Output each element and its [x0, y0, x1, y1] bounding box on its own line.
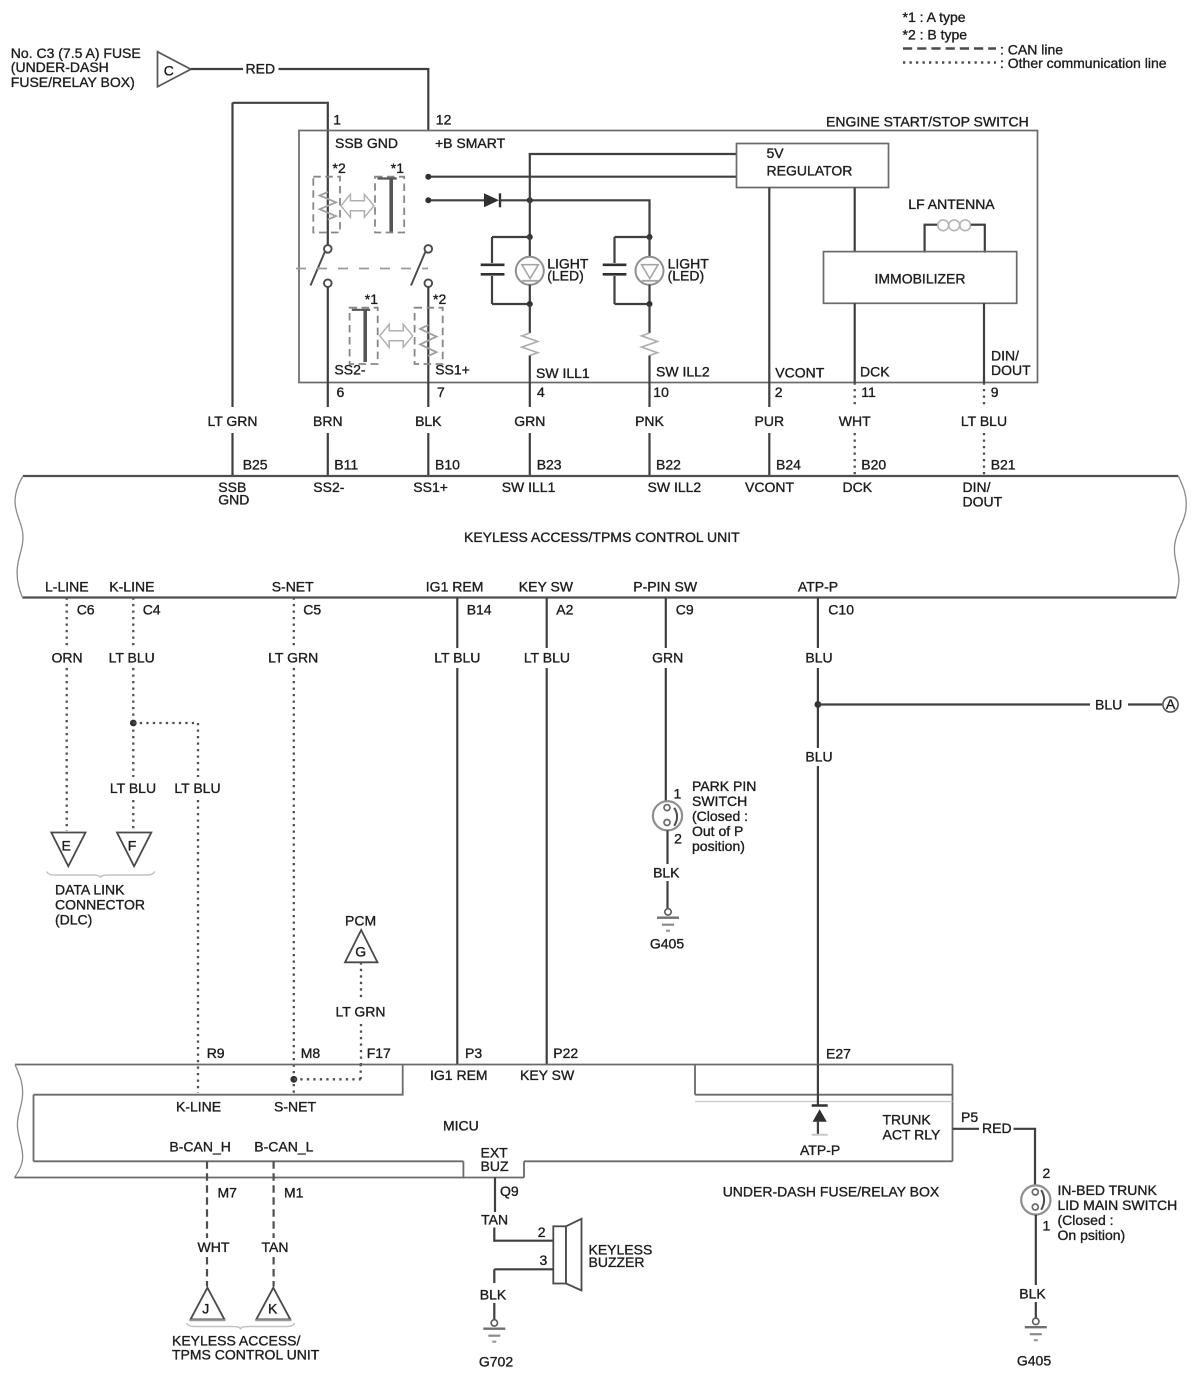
svg-text:7: 7: [437, 384, 445, 400]
wire B-CAN_H dashed to J: [206, 1161, 208, 1286]
svg-text:S-NET: S-NET: [272, 578, 314, 594]
wire K-LINE dotted to DLC F: [132, 598, 134, 832]
svg-text:M1: M1: [284, 1184, 304, 1200]
wire L-LINE dotted to DLC E: [66, 598, 68, 832]
svg-text:E: E: [62, 838, 71, 854]
svg-text:ATP-P: ATP-P: [798, 578, 838, 594]
svg-text:*2 : B type: *2 : B type: [903, 27, 968, 43]
net EXT BUZ label: [481, 1145, 509, 1175]
svg-text:LID MAIN SWITCH: LID MAIN SWITCH: [1058, 1197, 1178, 1213]
wire DCK to connector B20: [854, 383, 856, 477]
connector C triangle: [158, 52, 191, 87]
legend CAN line sample: [903, 47, 996, 50]
svg-text:LT BLU: LT BLU: [110, 780, 156, 796]
wire ATP-P from C10: [817, 598, 819, 1066]
svg-text:BUZZER: BUZZER: [589, 1254, 645, 1270]
svg-text:SW ILL2: SW ILL2: [656, 364, 710, 380]
svg-text:L-LINE: L-LINE: [45, 578, 89, 594]
svg-text:(LED): (LED): [668, 267, 705, 283]
svg-text:3: 3: [540, 1252, 548, 1268]
wire LED1 feed down: [529, 200, 531, 237]
svg-text:C5: C5: [303, 601, 321, 617]
net SSB GND label: [218, 479, 249, 507]
svg-text:B-CAN_H: B-CAN_H: [169, 1138, 230, 1154]
wire SS2- to connector B11: [327, 383, 329, 477]
svg-text:Out of P: Out of P: [692, 823, 743, 839]
svg-text:GND: GND: [218, 492, 249, 508]
svg-text:IG1 REM: IG1 REM: [426, 578, 484, 594]
svg-text:Q9: Q9: [500, 1183, 519, 1199]
svg-text:VCONT: VCONT: [745, 479, 794, 495]
svg-text:TPMS CONTROL UNIT: TPMS CONTROL UNIT: [172, 1346, 320, 1362]
svg-text:10: 10: [653, 384, 669, 400]
svg-text:MICU: MICU: [443, 1117, 479, 1133]
svg-text:LT GRN: LT GRN: [268, 649, 318, 665]
wire DIN/DOUT immobilizer to pin 9: [983, 303, 985, 382]
switch SS1 blade: [411, 251, 426, 286]
diode trunk act rly (ATP-P): [812, 1106, 828, 1135]
svg-text:PNK: PNK: [635, 413, 664, 429]
svg-text:On psition): On psition): [1058, 1227, 1126, 1243]
connector G triangle (PCM): [345, 930, 378, 962]
5V regulator box: [737, 144, 889, 188]
wire SSB GND pin 1 up-left to B25: [233, 102, 328, 407]
wire B-CAN_L dashed to K: [273, 1161, 275, 1286]
svg-text:B21: B21: [991, 456, 1016, 472]
svg-text:RED: RED: [982, 1120, 1012, 1136]
wire BLU to connector A: [818, 703, 1162, 705]
svg-text:G702: G702: [479, 1353, 513, 1369]
engine start/stop switch box: [299, 131, 1038, 383]
svg-text:BLK: BLK: [1019, 1285, 1046, 1301]
svg-text:KEY SW: KEY SW: [520, 1067, 575, 1083]
svg-text:2: 2: [674, 830, 682, 846]
svg-text:LT GRN: LT GRN: [335, 1003, 385, 1019]
svg-text:SW ILL1: SW ILL1: [502, 479, 556, 495]
svg-text:SS1+: SS1+: [413, 479, 448, 495]
svg-text:SW ILL2: SW ILL2: [648, 479, 702, 495]
E27 connector strip: [695, 1065, 953, 1102]
capacitor C-LED2: [603, 237, 651, 304]
svg-text:LT BLU: LT BLU: [434, 649, 480, 665]
svg-text:(Closed :: (Closed :: [1058, 1212, 1114, 1228]
immobilizer box: [824, 252, 1017, 304]
wire +B SMART drop to pin 12: [427, 69, 429, 131]
wire P5 RED to in-bed trunk switch: [953, 1129, 1037, 1186]
svg-text:M8: M8: [301, 1045, 321, 1061]
net DIN/DOUT label: [963, 479, 1003, 510]
svg-text:SS1+: SS1+: [435, 362, 470, 378]
svg-text:2: 2: [775, 384, 783, 400]
node LED1 top: [527, 234, 533, 240]
wire EXT BUZ Q9 to buzzer: [494, 1178, 554, 1242]
pin numbers under engine box: [337, 384, 999, 400]
wire +B SMART to 5V regulator: [428, 176, 736, 178]
DLC brace: [47, 872, 155, 879]
svg-text:A2: A2: [556, 601, 573, 617]
svg-text:LT BLU: LT BLU: [109, 649, 155, 665]
legend other communication line sample: [903, 61, 996, 64]
svg-text:VCONT: VCONT: [775, 365, 824, 381]
svg-text:SSB GND: SSB GND: [335, 135, 398, 151]
connector J triangle: [190, 1288, 226, 1321]
wire S-NET junction dotted to F17: [294, 1065, 361, 1080]
node LED1 feed: [527, 197, 533, 203]
wire DIN/DOUT to connector B21: [983, 383, 985, 477]
switch SS2 blade: [311, 251, 326, 286]
svg-text:C6: C6: [77, 601, 95, 617]
svg-text:A: A: [1166, 696, 1176, 712]
svg-text:B20: B20: [861, 456, 886, 472]
contact A-type *1 (lower, dashed box): [350, 308, 378, 364]
svg-text:K: K: [268, 1301, 278, 1317]
capacitor C-LED1: [481, 237, 531, 304]
svg-text:F: F: [128, 838, 137, 854]
ground G405 (trunk switch): [1025, 1318, 1047, 1340]
svg-text:BRN: BRN: [313, 413, 343, 429]
svg-text:B14: B14: [467, 601, 492, 617]
node K-LINE branch: [130, 720, 137, 727]
switch linkage dashed: [296, 268, 428, 270]
svg-text:4: 4: [537, 384, 545, 400]
wire KEY SW to P22: [546, 598, 548, 1065]
svg-text:C10: C10: [828, 601, 854, 617]
svg-text:SS2-: SS2-: [334, 362, 365, 378]
svg-text:GRN: GRN: [652, 649, 683, 665]
svg-text:B25: B25: [243, 456, 268, 472]
wire SS1+ down to pin 7: [427, 287, 429, 383]
resistor B-type *2 (lower, dashed box): [415, 308, 443, 364]
svg-text:BLK: BLK: [480, 1286, 507, 1302]
LIGHT (LED) 1 label: [547, 256, 589, 284]
MICU box: [34, 1065, 525, 1178]
svg-text:TAN: TAN: [262, 1239, 289, 1255]
svg-text:(LED): (LED): [547, 267, 584, 283]
svg-text:SW ILL1: SW ILL1: [536, 365, 590, 381]
svg-text:PARK PIN: PARK PIN: [692, 778, 756, 794]
connector E triangle (DLC): [51, 833, 85, 867]
svg-text:UNDER-DASH FUSE/RELAY BOX: UNDER-DASH FUSE/RELAY BOX: [723, 1183, 940, 1199]
park pin switch label: [692, 778, 756, 854]
wire S-NET dotted to M8: [293, 598, 295, 1094]
svg-text:G405: G405: [1017, 1352, 1051, 1368]
node +B SMART / 5V reg: [425, 174, 431, 180]
svg-text:P5: P5: [961, 1109, 978, 1125]
svg-text:KEY SW: KEY SW: [519, 578, 574, 594]
wire diode to LED branches: [500, 200, 651, 237]
svg-text:C9: C9: [676, 601, 694, 617]
DLC label: [55, 881, 145, 927]
svg-text:SWITCH: SWITCH: [692, 793, 747, 809]
svg-text:*1: *1: [391, 160, 404, 176]
wire DCK regulator to immobilizer: [854, 188, 856, 252]
svg-text:ENGINE START/STOP SWITCH: ENGINE START/STOP SWITCH: [826, 114, 1029, 130]
net TRUNK ACT RLY label: [883, 1111, 941, 1142]
svg-text:LT BLU: LT BLU: [961, 413, 1007, 429]
svg-text:P-PIN SW: P-PIN SW: [633, 578, 698, 594]
svg-text:K-LINE: K-LINE: [109, 578, 154, 594]
svg-text:LT GRN: LT GRN: [207, 413, 257, 429]
5V regulator label: [767, 145, 853, 179]
svg-text:G405: G405: [650, 935, 684, 951]
wire VCONT from regulator: [768, 188, 770, 383]
svg-text:ATP-P: ATP-P: [800, 1142, 840, 1158]
svg-text:LF ANTENNA: LF ANTENNA: [908, 196, 995, 212]
svg-text:P3: P3: [465, 1045, 482, 1061]
svg-text:J: J: [202, 1301, 209, 1317]
wire K-LINE branch dotted to R9: [133, 723, 198, 1093]
svg-text:PUR: PUR: [755, 413, 785, 429]
wire IG1 REM to P3: [456, 598, 458, 1065]
under-dash fuse/relay box: [15, 1065, 953, 1178]
svg-text:ACT RLY: ACT RLY: [883, 1126, 941, 1142]
svg-text:5V: 5V: [767, 145, 785, 161]
LF antenna coil: [924, 220, 986, 253]
node LED1 bottom: [527, 301, 533, 307]
node LED2 top: [647, 234, 653, 240]
connector A circle: [1163, 696, 1178, 712]
svg-text:RED: RED: [246, 61, 276, 77]
diode D1: [484, 193, 500, 207]
svg-text:B10: B10: [435, 456, 460, 472]
svg-text:IMMOBILIZER: IMMOBILIZER: [874, 270, 965, 286]
keyless access/TPMS control unit (bottom) label: [172, 1333, 320, 1363]
svg-text:G: G: [355, 944, 366, 960]
svg-text:11: 11: [861, 384, 876, 400]
wire trunk switch to ground: [1035, 1215, 1037, 1318]
LED2 light: [636, 237, 664, 305]
svg-text:position): position): [692, 838, 745, 854]
svg-text:B24: B24: [776, 456, 801, 472]
svg-text:TAN: TAN: [481, 1211, 508, 1227]
svg-text:C4: C4: [143, 601, 161, 617]
svg-text:(DLC): (DLC): [55, 911, 92, 927]
switch SS1 contact circles: [425, 245, 433, 287]
pin DIN/DOUT label: [991, 348, 1031, 379]
svg-text:B23: B23: [537, 456, 562, 472]
wire VCONT to connector B24: [768, 383, 770, 477]
svg-text:IG1 REM: IG1 REM: [430, 1067, 488, 1083]
svg-text:ORN: ORN: [51, 649, 82, 665]
svg-text:BLU: BLU: [1095, 696, 1122, 712]
resistor B-type *2 (upper, dashed box): [313, 177, 340, 233]
wire park pin switch to ground: [666, 830, 668, 908]
wire +B SMART to diode: [428, 199, 484, 201]
svg-text:DATA LINK: DATA LINK: [55, 881, 125, 897]
wire LED1 to resistor: [529, 304, 531, 333]
svg-text:9: 9: [991, 384, 999, 400]
svg-text:BLK: BLK: [415, 413, 442, 429]
svg-text:+B SMART: +B SMART: [435, 135, 506, 151]
wire LED2 to resistor: [648, 304, 650, 333]
switch SS2 contact circles: [324, 245, 332, 287]
svg-text:(Closed :: (Closed :: [692, 808, 748, 824]
svg-text:*1 : A type: *1 : A type: [903, 9, 966, 25]
variant arrow (lower): [380, 324, 413, 347]
svg-text:E27: E27: [826, 1045, 851, 1061]
contact A-type *1 (upper, dashed box): [375, 177, 404, 233]
wire ATP-P into under-dash box to diode: [817, 1065, 819, 1106]
wire SW ILL2 to connector B22: [648, 383, 650, 477]
node LED2 bottom: [647, 301, 653, 307]
svg-text:S-NET: S-NET: [274, 1099, 316, 1115]
wire SS1+ to connector B10: [427, 383, 429, 477]
svg-text:B11: B11: [334, 456, 358, 472]
wire SW ILL2 to pin 10: [648, 356, 650, 383]
svg-text:SS2-: SS2-: [313, 479, 344, 495]
keyless access/TPMS control unit box: [15, 476, 1186, 598]
svg-text:B-CAN_L: B-CAN_L: [254, 1138, 313, 1154]
wire P-PIN SW to park pin switch: [665, 598, 667, 802]
svg-text:LT BLU: LT BLU: [524, 649, 570, 665]
svg-text:LT BLU: LT BLU: [174, 780, 220, 796]
svg-text:*2: *2: [333, 160, 346, 176]
svg-text:*2: *2: [433, 291, 446, 307]
svg-text:F17: F17: [367, 1045, 391, 1061]
svg-text:BLU: BLU: [805, 649, 832, 665]
wire SSB GND inside box: [327, 131, 329, 245]
LED1 light: [516, 237, 544, 305]
svg-text:WHT: WHT: [839, 413, 871, 429]
wire SSB GND to connector B25: [231, 433, 233, 476]
svg-text:2: 2: [1043, 1165, 1051, 1181]
node ATP-P branch: [815, 701, 822, 708]
svg-text:BLU: BLU: [805, 748, 832, 764]
svg-text:BLK: BLK: [653, 865, 680, 881]
svg-text:: Other communication line: : Other communication line: [1000, 55, 1167, 71]
svg-text:K-LINE: K-LINE: [176, 1099, 221, 1115]
svg-text:6: 6: [337, 384, 345, 400]
fuse label No. C3 (7.5 A) FUSE (UNDER-DASH FUSE/RELAY BOX): [11, 45, 141, 90]
in-bed trunk lid main switch label: [1058, 1182, 1178, 1243]
svg-text:*1: *1: [365, 291, 378, 307]
svg-text:DOUT: DOUT: [991, 362, 1031, 378]
wire SW ILL1 to connector B23: [529, 383, 531, 477]
svg-text:DCK: DCK: [860, 364, 890, 380]
ground G405 (park pin switch): [657, 909, 679, 931]
svg-text:FUSE/RELAY BOX): FUSE/RELAY BOX): [11, 74, 135, 90]
ground G702: [483, 1320, 505, 1342]
svg-text:2: 2: [538, 1224, 546, 1240]
in-bed trunk lid main switch: [1021, 1185, 1050, 1214]
wire SS2- down to pin 6: [327, 287, 329, 383]
svg-text:1: 1: [333, 112, 341, 128]
svg-text:P22: P22: [553, 1045, 578, 1061]
svg-text:BUZ: BUZ: [481, 1158, 509, 1174]
svg-text:WHT: WHT: [198, 1239, 230, 1255]
node S-NET junction: [290, 1076, 297, 1083]
wire LED1 feed up to 5V regulator: [529, 153, 737, 201]
svg-text:GRN: GRN: [514, 413, 545, 429]
wire PCM dotted to F17: [360, 962, 362, 1064]
keyless buzzer: [553, 1219, 581, 1291]
svg-text:(UNDER-DASH: (UNDER-DASH: [11, 59, 109, 75]
park pin switch: [653, 801, 682, 830]
J/K brace: [187, 1323, 295, 1330]
svg-text:KEYLESS ACCESS/TPMS CONTROL UN: KEYLESS ACCESS/TPMS CONTROL UNIT: [464, 529, 740, 545]
svg-text:12: 12: [436, 112, 452, 128]
svg-text:B22: B22: [656, 456, 681, 472]
svg-text:CONNECTOR: CONNECTOR: [55, 896, 145, 912]
keyless buzzer label: [589, 1241, 653, 1270]
LIGHT (LED) 2 label: [668, 256, 710, 284]
variant arrow (upper): [341, 194, 374, 217]
svg-text:DOUT: DOUT: [963, 494, 1003, 510]
svg-text:1: 1: [674, 786, 682, 802]
wire RED from fuse C to +B SMART: [191, 68, 430, 70]
resistor R-SWILL2: [642, 333, 658, 356]
node +B SMART / diode: [425, 197, 431, 203]
resistor R-SWILL1: [522, 333, 538, 356]
wire SW ILL1 to pin 4: [529, 356, 531, 383]
svg-text:R9: R9: [207, 1045, 225, 1061]
svg-text:DCK: DCK: [843, 479, 873, 495]
svg-text:PCM: PCM: [345, 913, 376, 929]
svg-text:C: C: [164, 63, 174, 79]
svg-text:REGULATOR: REGULATOR: [767, 163, 853, 179]
connector K triangle: [255, 1288, 291, 1321]
wire DCK immobilizer to pin 11: [854, 303, 856, 382]
svg-text:M7: M7: [218, 1184, 238, 1200]
svg-text:1: 1: [1043, 1218, 1051, 1234]
svg-text:TRUNK: TRUNK: [883, 1111, 932, 1127]
wire buzzer pin 3 to ground: [494, 1269, 554, 1319]
svg-text:IN-BED TRUNK: IN-BED TRUNK: [1058, 1182, 1158, 1198]
connector F triangle (DLC): [117, 833, 151, 867]
